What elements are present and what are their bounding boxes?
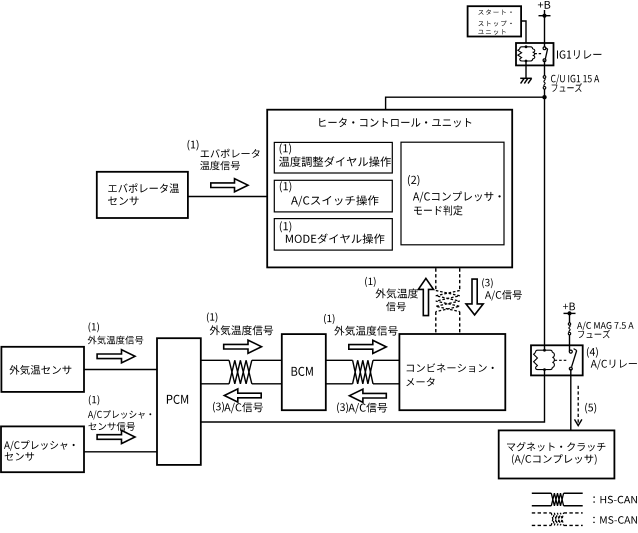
relay A/C switch arm — [572, 351, 577, 367]
signal label (3) down — [482, 278, 493, 288]
wire A/C relay switch to magnet clutch — [570, 369, 572, 431]
relay A/C box — [531, 345, 583, 375]
MS-CAN dashed bus left rail — [435, 268, 437, 290]
temp dial label — [279, 156, 391, 167]
combination meter box — [399, 334, 505, 410]
wire air temp sensor to PCM — [84, 369, 157, 371]
pressure signal arrow — [97, 430, 135, 443]
fuse A/C MAG label line1 — [577, 322, 634, 331]
wire node A down to A/C relay coil — [544, 97, 546, 350]
HS-CAN wire BCM-meter bottom — [326, 383, 353, 385]
combination meter label line2 — [406, 377, 434, 386]
relay IG1 switch arm — [545, 49, 547, 60]
+B terminal bar (top) — [539, 15, 551, 17]
BCM label — [292, 367, 313, 376]
wire evaporator sensor to heater unit — [188, 196, 267, 198]
temp dial label (1) — [280, 143, 292, 154]
MODE dial label — [286, 234, 385, 244]
evaporator signal label line2 — [200, 161, 240, 170]
relay A/C switch contact top — [569, 350, 572, 353]
arrow PCM to BCM — [224, 340, 262, 353]
wire pressure sensor to PCM — [84, 451, 157, 453]
+B junction dot (top) — [542, 14, 546, 18]
MS-CAN twisted pair (dashed) — [436, 291, 460, 312]
signal label BCM-meter — [334, 326, 397, 336]
label (5) — [585, 403, 596, 414]
relay A/C coil — [536, 350, 553, 352]
air temp signal arrow — [97, 350, 135, 363]
evaporator signal arrow — [211, 179, 248, 192]
fuse A/C MAG label line2 — [578, 330, 610, 339]
air temp signal label — [88, 336, 144, 345]
A/C switch label (1) — [280, 181, 292, 192]
fuse C/U IG1 15A label line1 — [551, 74, 599, 84]
heater control unit box — [267, 110, 512, 268]
heater control unit title — [319, 118, 471, 128]
legend HS-CAN label — [593, 496, 637, 504]
PCM label — [167, 395, 188, 404]
fuse A/C MAG 7.5A — [568, 323, 570, 325]
HS-CAN twisted pair BCM-meter — [353, 360, 373, 384]
A/C switch box — [274, 180, 392, 212]
evaporator signal label line1 — [201, 149, 260, 158]
arrow BCM to PCM — [224, 389, 261, 402]
up arrow meter-to-heater — [418, 278, 433, 315]
legend MS-CAN label — [593, 516, 637, 524]
signal label (1) PCM-BCM — [207, 312, 218, 322]
relay A/C coil-switch dashed link — [555, 359, 568, 361]
start-stop unit label line1 — [478, 9, 511, 15]
fuse C/U IG1 15A label line2 — [552, 83, 582, 92]
outside air temp sensor box — [1, 347, 84, 392]
arrow meter to BCM — [349, 389, 386, 402]
relay IG1 box — [516, 43, 554, 65]
pressure signal label line1 — [88, 410, 151, 420]
MS-CAN dashed bus right rail — [459, 268, 461, 290]
evaporator signal label (1) — [188, 140, 199, 151]
fuse C/U IG1 15A — [543, 76, 546, 79]
start-stop unit label line3 — [478, 29, 505, 35]
A/C pressure sensor label line1 — [4, 440, 75, 450]
legend MS-CAN symbol — [532, 512, 552, 514]
relay IG1 label — [557, 50, 601, 59]
signal label (3) BCM-PCM — [213, 402, 224, 413]
relay IG1 coil — [520, 47, 533, 49]
signal label meter-BCM — [348, 403, 387, 414]
magnet clutch box — [499, 430, 615, 478]
relay A/C switch contact bottom — [569, 367, 572, 370]
A/C pressure sensor box — [1, 426, 84, 472]
wire fuse to A/C relay switch — [569, 335, 571, 352]
pressure signal label line2 — [89, 422, 135, 431]
combination meter label line1 — [407, 363, 494, 372]
relay IG1 switch contact top — [543, 47, 546, 50]
A/C compressor mode box — [401, 142, 504, 245]
signal label up line2 — [386, 302, 406, 311]
wire start-stop to IG1 relay coil — [521, 21, 526, 43]
A/C switch label — [291, 195, 379, 206]
node A junction dot — [542, 95, 546, 99]
wire IG1 switch to fuse — [544, 60, 546, 75]
evaporator temp sensor box — [97, 172, 188, 218]
magnet clutch label line1 — [507, 442, 605, 452]
temp dial box — [274, 142, 392, 173]
arrow BCM to meter — [349, 340, 387, 353]
start-stop unit label line2 — [478, 21, 511, 27]
wire +B to IG1 relay switch — [544, 16, 546, 49]
+B junction dot (right) — [568, 311, 572, 315]
wire +B to A/C MAG fuse — [569, 313, 571, 322]
A/C compressor mode label line2 — [414, 205, 463, 215]
A/C compressor mode label (2) — [408, 175, 420, 186]
magnet clutch drive dashed arrow (5) — [577, 386, 579, 423]
wire fuse to node A — [544, 89, 546, 97]
air temp signal label (1) — [89, 322, 100, 332]
magnet clutch label line2 — [512, 454, 597, 465]
legend HS-CAN symbol — [532, 492, 552, 494]
outside air temp sensor label — [10, 365, 72, 375]
HS-CAN wire PCM-BCM bottom — [201, 383, 229, 385]
PCM box — [157, 338, 201, 465]
signal label (1) BCM-meter — [324, 314, 335, 324]
signal label down — [485, 290, 522, 300]
evaporator temp sensor label line1 — [108, 183, 179, 193]
HS-CAN twisted pair PCM-BCM — [229, 360, 252, 384]
ground symbol (IG1 relay coil) — [520, 77, 532, 79]
start-stop unit box — [468, 6, 521, 36]
evaporator temp sensor label line2 — [108, 197, 139, 206]
relay IG1 coil-switch dashed link — [535, 53, 543, 55]
relay A/C label — [591, 359, 637, 369]
+B supply label (top) — [538, 1, 550, 9]
MODE dial box — [274, 219, 392, 251]
signal label (3) meter-BCM — [337, 402, 348, 413]
relay A/C label (4) — [587, 347, 598, 358]
HS-CAN wire BCM-meter top — [326, 359, 353, 361]
relay IG1 switch contact bottom — [543, 59, 546, 62]
BCM box — [282, 334, 326, 410]
wire node A to heater control unit — [386, 97, 545, 110]
A/C pressure sensor label line2 — [5, 452, 34, 461]
signal label PCM-BCM — [210, 325, 273, 335]
pressure signal label (1) — [89, 395, 100, 405]
+B terminal bar (right) — [564, 312, 576, 314]
MODE dial label (1) — [280, 221, 292, 232]
A/C compressor mode label line1 — [413, 191, 501, 202]
wire A/C relay coil to PCM — [201, 370, 545, 422]
signal label BCM-PCM — [224, 402, 263, 413]
signal label (1) up — [365, 277, 376, 287]
HS-CAN wire PCM-BCM top — [201, 359, 229, 361]
signal label up line1 — [376, 288, 419, 298]
wire IG1 coil to ground — [525, 61, 527, 78]
+B supply label (right) — [563, 303, 575, 311]
down arrow heater-to-meter — [466, 279, 483, 315]
